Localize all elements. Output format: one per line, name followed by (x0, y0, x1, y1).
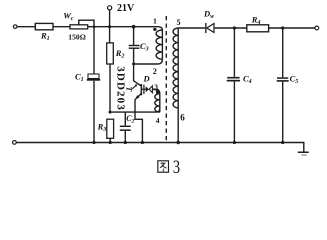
svg-text:Dw: Dw (203, 9, 215, 21)
svg-text:5: 5 (177, 18, 181, 27)
svg-text:D: D (143, 74, 150, 84)
svg-text:6: 6 (180, 112, 185, 122)
svg-text:2: 2 (153, 67, 157, 76)
svg-text:3DD203: 3DD203 (114, 66, 126, 111)
svg-text:Wc: Wc (63, 10, 74, 22)
svg-text:R3: R3 (97, 122, 107, 134)
svg-text:150Ω: 150Ω (68, 33, 85, 42)
svg-text:C3: C3 (140, 41, 149, 53)
svg-text:C1: C1 (75, 72, 84, 84)
svg-text:C4: C4 (243, 74, 252, 86)
svg-text:1: 1 (153, 16, 157, 25)
svg-text:3: 3 (173, 156, 180, 177)
svg-text:T: T (125, 86, 134, 92)
svg-text:3: 3 (154, 82, 158, 91)
svg-text:4: 4 (156, 116, 160, 125)
svg-text:21V: 21V (117, 3, 135, 14)
svg-text:R1: R1 (40, 31, 50, 43)
svg-text:C5: C5 (290, 74, 299, 86)
svg-text:R4: R4 (251, 14, 261, 26)
svg-text:C2: C2 (126, 114, 134, 125)
svg-text:R2: R2 (115, 48, 125, 60)
